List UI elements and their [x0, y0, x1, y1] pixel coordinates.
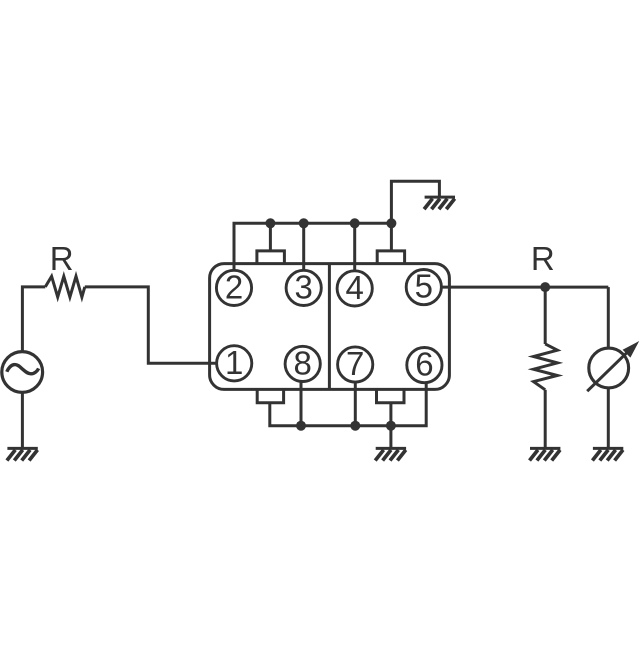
pin 7 [338, 345, 373, 382]
ground (load) [530, 448, 561, 460]
wire R2 to ground [544, 390, 547, 448]
pin 8 [285, 344, 320, 381]
svg-text:1: 1 [225, 344, 243, 381]
svg-text:8: 8 [294, 344, 312, 381]
resistor R2 (load) [534, 344, 558, 390]
wire to meter [607, 287, 610, 348]
node (bus-pin3 junction) [299, 218, 309, 228]
package tab (top, pins 2-3) [257, 251, 285, 265]
wire R1 to pin 1 [85, 287, 217, 363]
node (bus-pin8 junction) [296, 421, 306, 431]
pin 5 [406, 268, 441, 305]
svg-text:2: 2 [225, 268, 243, 305]
wire pin 7 down [354, 382, 357, 426]
pin 3 [286, 268, 321, 305]
wire pin 4 up [353, 223, 356, 271]
svg-text:3: 3 [295, 268, 313, 305]
AC source V1 [2, 352, 43, 393]
package tab (bottom, pins 7-6) [377, 388, 405, 402]
svg-text:R: R [50, 240, 74, 277]
node (load junction) [540, 282, 550, 292]
wire bus to bottom ground [389, 426, 392, 448]
pin 4 [337, 269, 372, 306]
pin 6 [407, 346, 442, 383]
wire V1 bottom [21, 392, 24, 448]
node (bus-pin4 junction) [350, 218, 360, 228]
node (bus-tab junction) [265, 218, 275, 228]
svg-text:6: 6 [415, 346, 433, 383]
wire bottom-right tab down [389, 403, 392, 426]
wire V1 top to R1 [22, 287, 45, 352]
wire junction to R2 [544, 287, 547, 344]
transformer package U1 [210, 264, 450, 390]
resistor R1 [45, 276, 85, 297]
svg-text:4: 4 [346, 269, 364, 306]
pin 2 [216, 268, 251, 305]
ground (meter) [592, 448, 623, 460]
wire pin 5 to load [441, 286, 608, 289]
svg-text:7: 7 [346, 345, 364, 382]
wire bus to top-right tab [390, 223, 393, 251]
wire bus to top ground [391, 181, 439, 223]
node (bus-ground junction) [386, 218, 396, 228]
package tab (bottom, pins 1-8) [257, 388, 283, 402]
ground (top) [424, 197, 455, 209]
package tab (top, pins 4-5) [377, 251, 404, 265]
ground (bottom center) [375, 448, 406, 460]
wire pin 2 up and top bus [234, 223, 391, 270]
meter M1 [587, 341, 639, 391]
node (bus-pin7 junction) [350, 421, 360, 431]
pin 1 [217, 344, 252, 381]
wire pin 8 down [300, 382, 303, 426]
svg-text:5: 5 [415, 268, 433, 305]
node (bus-ground junction bottom) [386, 421, 396, 431]
package divider [328, 264, 331, 390]
wire meter to ground [607, 388, 610, 448]
wire pin 3 up [302, 223, 305, 270]
svg-text:R: R [531, 240, 555, 277]
ground (source) [7, 448, 38, 460]
wire bottom-left tab to bottom bus and up to pin 6 [270, 383, 426, 426]
wire bus to top-left tab [269, 223, 272, 251]
